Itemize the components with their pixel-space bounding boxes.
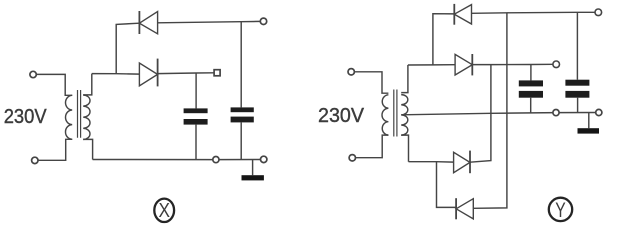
wire: X bottom rail — [93, 159, 261, 161]
wire: X top-left terminal to primary top — [36, 74, 72, 95]
wire: X secondary bottom lead — [83, 139, 92, 159]
wire: capacitor C3 bottom lead — [530, 98, 532, 113]
wire: ground stub X — [252, 160, 254, 176]
wire: Y secondary bottom lead — [401, 135, 408, 162]
transformer T2 primary winding — [382, 95, 388, 135]
capacitor C1 plates — [184, 108, 208, 124]
diode D6 (points left) cathode bar — [455, 198, 457, 219]
wire: D4 output rail to terminal — [472, 63, 553, 65]
diode D1 triangle — [139, 12, 157, 34]
ground (Y) — [578, 128, 600, 133]
output terminal (Y bottom-right) — [596, 109, 602, 115]
input terminal P1 (Y top-left) — [348, 69, 354, 75]
capacitor C2 plates — [231, 107, 254, 122]
transformer T1 primary winding — [65, 95, 72, 139]
svg-text:X: X — [159, 199, 171, 222]
output terminal (Y mid-right) — [553, 61, 560, 68]
diode D3 triangle — [454, 5, 471, 24]
capacitor C3 plates — [519, 80, 543, 97]
wire: capacitor C2 bottom lead — [240, 122, 242, 159]
wire: Y row3 rail (secondary to diode D5) — [409, 161, 454, 163]
wire: D6 output riser to top rail — [473, 13, 507, 209]
input terminal P2 (Y bottom-left) — [349, 155, 355, 161]
input terminal P1 (X top-left) — [30, 71, 36, 77]
output terminal (X top-right) — [260, 18, 266, 24]
output terminal (X bottom, on rail) — [213, 157, 219, 163]
wire: Y secondary top lead — [401, 65, 408, 93]
diode D3 (points left) cathode bar — [453, 4, 455, 25]
wire: ground stub Y — [588, 113, 590, 129]
svg-text:230V: 230V — [318, 104, 364, 127]
wire: Y bottom-left terminal to primary bottom — [356, 135, 389, 158]
transformer T2 secondary winding — [401, 95, 408, 136]
transformer T2 core — [394, 90, 397, 137]
diode D2 cathode bar — [157, 59, 159, 87]
output terminal square (X mid-right) — [214, 70, 220, 76]
output terminal (Y top-right) — [595, 9, 602, 16]
wire: X secondary top lead — [83, 74, 92, 95]
diode D5 cathode bar — [469, 151, 471, 174]
diode D4 cathode bar — [471, 54, 473, 75]
input terminal P2 (X bottom-left) — [32, 157, 38, 163]
wire: riser from node to diode D1 — [116, 23, 139, 73]
wire: X bottom-left terminal to primary bottom — [38, 139, 72, 160]
diode D2 (points right) triangle — [139, 63, 157, 86]
wire: Y top-left terminal to primary top — [354, 72, 388, 93]
wire: capacitor C4 bottom lead — [577, 98, 579, 113]
label X in circle — [154, 199, 174, 222]
wire: Y top rail to terminal — [472, 12, 596, 13]
wire: capacitor C1 bottom lead — [195, 125, 197, 160]
diode D5 (points right) triangle — [454, 152, 470, 172]
wire: capacitor C3 top lead — [530, 65, 532, 81]
svg-text:230V: 230V — [4, 105, 47, 128]
wire: capacitor C2 top lead — [240, 22, 242, 108]
wire: X mid rail (secondary to diode D2) — [92, 73, 140, 76]
wire: riser to diode D3 — [433, 14, 454, 65]
transformer T1 core — [78, 90, 81, 138]
capacitor C4 plates — [565, 80, 589, 98]
wire: Y center-tap rail — [401, 113, 596, 115]
transformer T1 secondary winding — [83, 95, 90, 139]
wire: D2 output to square terminal — [158, 72, 214, 75]
label Y in circle — [549, 198, 572, 221]
diode D4 (points right) triangle — [455, 54, 472, 75]
diode D1 (points left) cathode bar — [138, 11, 140, 34]
ground (X) — [242, 175, 264, 180]
output terminal (X bottom-right) — [261, 156, 267, 162]
wire: Y row2 rail (secondary to diode D4) — [408, 64, 455, 66]
diode D6 triangle — [456, 199, 473, 219]
wire: X top rail to terminal — [158, 21, 261, 22]
wire: D5 output riser to row2 rail — [470, 65, 491, 163]
wire: drop to bottom diode row — [437, 162, 457, 208]
wire: capacitor C4 top lead — [576, 12, 578, 79]
output terminal (Y center rail, on rail) — [553, 110, 559, 116]
svg-text:Y: Y — [555, 199, 566, 222]
wire: capacitor C1 top lead — [195, 73, 197, 108]
